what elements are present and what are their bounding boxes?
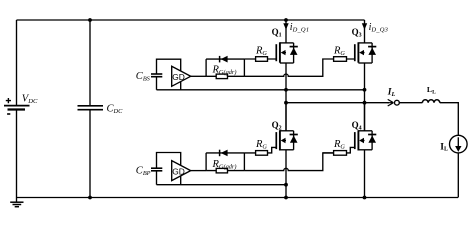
wire to inductor xyxy=(399,102,422,104)
wire parallel branch verticals top xyxy=(206,59,244,76)
wire top DC+ rail xyxy=(17,19,365,21)
wire Q3 source to Q4 drain xyxy=(364,63,366,131)
buffer GD2 triangle xyxy=(172,161,191,181)
diode D1 (anti turn-off) xyxy=(220,56,228,63)
kelvin return line GD1 xyxy=(157,89,365,91)
arrow I_L xyxy=(387,99,393,106)
wire GD1 output xyxy=(191,75,206,77)
resistor R_G (Q2) xyxy=(244,147,276,155)
resistor R_G (Q3) xyxy=(334,57,355,62)
body diode Q1 xyxy=(290,43,298,63)
svg-text:IL: IL xyxy=(440,142,448,152)
wire parallel branch verticals bottom xyxy=(206,153,244,171)
wire battery minus to bottom rail xyxy=(16,110,18,198)
node switch Q1 xyxy=(284,101,288,105)
resistor R_G (Q4) xyxy=(323,147,355,155)
svg-text:RG: RG xyxy=(333,45,345,57)
node Q1 drain rail xyxy=(284,18,288,22)
wire through R_G(gdr)2 xyxy=(206,170,244,172)
arrow i_D_Q1 xyxy=(283,23,288,30)
wire Q4 source to rail xyxy=(364,150,366,198)
svg-text:RG: RG xyxy=(255,139,267,151)
capacitor C_DC xyxy=(78,20,104,198)
wire Q1 source to Q2 drain xyxy=(285,63,287,131)
transistor Q2 xyxy=(276,130,293,150)
transistor Q4 xyxy=(355,130,372,150)
node kelvin Q3 xyxy=(363,88,367,92)
capacitor C_BS xyxy=(151,74,162,77)
inductor L_L xyxy=(422,100,439,103)
svg-text:iD_Q1: iD_Q1 xyxy=(290,22,309,33)
wire Q1 drain xyxy=(285,20,287,43)
wire through R_G(gdr)1 xyxy=(206,75,244,77)
wire Q2 source to rail xyxy=(285,150,287,198)
battery V_DC xyxy=(4,98,30,114)
wire bottom DC- rail xyxy=(17,197,459,199)
node C_DC bottom xyxy=(88,196,92,200)
buffer GD1 triangle xyxy=(172,66,191,86)
svg-text:Q3: Q3 xyxy=(352,27,362,38)
capacitor C_BP xyxy=(151,168,162,171)
wire GD2 output xyxy=(191,170,206,172)
wire diode branch bottom xyxy=(206,152,244,154)
wire inductor to right branch xyxy=(440,103,459,136)
wire Q4 drain xyxy=(364,103,366,131)
svg-text:GD: GD xyxy=(172,72,185,82)
svg-text:CDC: CDC xyxy=(107,104,124,116)
svg-text:IL: IL xyxy=(387,87,396,98)
resistor R_G (Q1) xyxy=(244,57,276,62)
svg-text:CBS: CBS xyxy=(136,71,151,83)
body diode Q4 xyxy=(368,131,376,150)
node kelvin Q1 xyxy=(284,88,288,92)
wire diode branch top xyxy=(206,58,244,60)
transistor Q3 xyxy=(355,42,372,63)
svg-text:LL: LL xyxy=(427,85,436,96)
node switch Q3 xyxy=(363,101,367,105)
svg-text:iD_Q3: iD_Q3 xyxy=(369,22,389,33)
wire gate feed bottom (hop over Q2 source) xyxy=(244,153,333,171)
node circle I_L xyxy=(395,100,400,105)
svg-text:Q2: Q2 xyxy=(272,120,282,131)
svg-text:RG: RG xyxy=(333,139,345,151)
svg-text:Q1: Q1 xyxy=(272,27,282,38)
wire left DC+ vertical xyxy=(16,20,18,106)
svg-text:RG(gdr): RG(gdr) xyxy=(212,159,237,171)
node kelvin Q2 xyxy=(284,183,288,187)
svg-text:RG(gdr): RG(gdr) xyxy=(212,65,237,77)
svg-text:CBP: CBP xyxy=(136,165,151,177)
diode D2 (anti turn-off) xyxy=(220,150,228,157)
wire switch node xyxy=(286,102,389,104)
wire Q2 drain xyxy=(285,103,287,131)
svg-text:RG: RG xyxy=(255,45,267,57)
resistor R_G(gdr)1 xyxy=(216,74,227,79)
svg-text:VDC: VDC xyxy=(22,94,38,105)
gate driver GD2 box xyxy=(157,153,181,185)
kelvin return line GD2 xyxy=(157,184,287,186)
body diode Q3 xyxy=(368,43,376,63)
node Q2 source rail xyxy=(284,196,288,200)
gate driver GD1 box xyxy=(157,59,181,90)
wire current source to bottom rail xyxy=(457,153,459,198)
current source I_L xyxy=(450,135,468,153)
wire Q3 drain xyxy=(364,20,366,43)
svg-text:GD: GD xyxy=(172,167,185,177)
node C_DC top xyxy=(88,18,92,22)
wire gate feed top (hop over Q1 source) xyxy=(244,59,333,76)
svg-text:Q4: Q4 xyxy=(352,120,362,131)
transistor Q1 xyxy=(276,42,293,63)
body diode Q2 xyxy=(290,131,298,150)
ground xyxy=(10,198,23,207)
node Q4 source rail xyxy=(363,196,367,200)
resistor R_G(gdr)2 xyxy=(216,168,227,173)
arrow i_D_Q3 xyxy=(362,23,367,30)
